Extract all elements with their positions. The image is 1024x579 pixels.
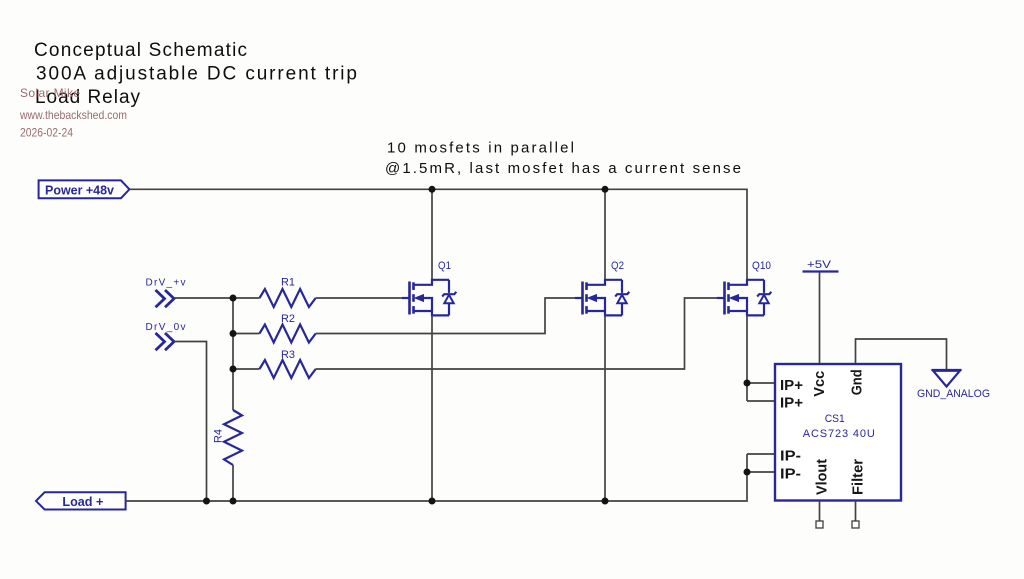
wire Gnd to GND_ANALOG <box>856 339 947 370</box>
svg-text:ACS723 40U: ACS723 40U <box>803 428 875 440</box>
wire R2 left stub <box>233 333 260 335</box>
svg-text:CS1: CS1 <box>825 413 845 425</box>
IC U1 CS1 ACS723 <box>775 364 901 501</box>
wire R3 to Q10 gate <box>316 298 718 369</box>
svg-text:Vcc: Vcc <box>811 371 828 397</box>
junction IP+ <box>744 380 751 387</box>
resistor R3 <box>260 349 316 378</box>
credits text <box>19 86 127 140</box>
global label Power +48v <box>39 180 130 198</box>
wire IP- pin2 <box>747 471 775 473</box>
global label Load + <box>36 492 126 509</box>
wire R4 bottom <box>232 465 234 501</box>
transistor Q2 <box>575 260 629 315</box>
junction bottom R4 <box>230 498 237 505</box>
pin Vlout no-connect square <box>816 521 823 528</box>
svg-text:Q1: Q1 <box>438 260 451 272</box>
junction top bus Q1 <box>429 186 436 193</box>
wire Q2 drain <box>604 189 606 280</box>
svg-text:GND_ANALOG: GND_ANALOG <box>917 388 990 400</box>
wire Q1 drain <box>431 189 433 280</box>
transistor Q10 <box>717 260 771 315</box>
wire top bus <box>129 189 747 280</box>
wire left vertical bus <box>232 298 234 410</box>
wire IP+ pin1 <box>747 382 775 384</box>
resistor R1 <box>260 277 316 308</box>
wire R1 to Q1 gate <box>316 297 403 299</box>
junction bottom Q2 <box>602 498 609 505</box>
svg-text:IP+: IP+ <box>780 395 803 412</box>
svg-text:Filter: Filter <box>850 459 867 495</box>
wire Q1 source <box>431 315 433 501</box>
power symbol +5V <box>803 259 839 272</box>
junction bottom Q1 <box>429 498 436 505</box>
wire IP- pin1 <box>747 453 775 455</box>
junction R2 node <box>230 330 237 337</box>
svg-text:IP-: IP- <box>780 448 801 465</box>
wire DrV_0v down to bottom bus <box>174 342 207 502</box>
ground GND_ANALOG <box>917 370 990 400</box>
junction R3 node <box>230 366 237 373</box>
junction bottom DrV_0v <box>203 498 210 505</box>
svg-text:Gnd: Gnd <box>849 369 866 395</box>
junction R1 node <box>230 295 237 302</box>
junction top bus Q2 <box>602 186 609 193</box>
wire Q2 source <box>604 315 606 501</box>
svg-text:R4: R4 <box>213 429 225 443</box>
svg-text:IP+: IP+ <box>780 377 803 394</box>
svg-text:www.thebackshed.com: www.thebackshed.com <box>19 108 127 122</box>
svg-text:IP-: IP- <box>780 466 801 483</box>
svg-text:@1.5mR, last mosfet has a curr: @1.5mR, last mosfet has a current sense <box>385 160 741 177</box>
svg-text:Q10: Q10 <box>752 260 771 272</box>
wire R3 left stub <box>233 368 260 370</box>
svg-text:2026-02-24: 2026-02-24 <box>20 128 74 140</box>
svg-text:R1: R1 <box>281 277 295 289</box>
note text <box>385 140 741 178</box>
pin Filter no-connect square <box>852 521 859 528</box>
wire IP+ pin2 <box>747 400 775 402</box>
wire DrV_+v to R1 <box>174 297 260 299</box>
svg-text:Conceptual Schematic: Conceptual Schematic <box>34 40 247 61</box>
transistor Q1 <box>402 260 456 315</box>
pin Vlout stub <box>819 501 821 522</box>
svg-text:Load +: Load + <box>62 494 103 509</box>
svg-text:Q2: Q2 <box>611 260 624 272</box>
title text block <box>34 40 357 108</box>
hier label DrV_+v <box>146 278 186 308</box>
hier label DrV_0v <box>146 322 186 350</box>
wire R2 to Q2 gate <box>316 298 576 334</box>
pin Filter stub <box>855 501 857 522</box>
resistor R2 <box>260 313 316 343</box>
svg-text:R2: R2 <box>281 313 295 325</box>
svg-text:Solar Mike: Solar Mike <box>20 86 80 100</box>
wire bottom bus <box>126 454 747 501</box>
junction IP- <box>744 469 751 476</box>
wire +5V to Vcc <box>819 272 821 365</box>
svg-text:Vlout: Vlout <box>814 459 831 495</box>
wire Q10 source to IP+ <box>746 315 748 401</box>
svg-text:Power +48v: Power +48v <box>45 182 115 197</box>
svg-text:+5V: +5V <box>807 259 832 271</box>
resistor R4 <box>213 410 243 465</box>
